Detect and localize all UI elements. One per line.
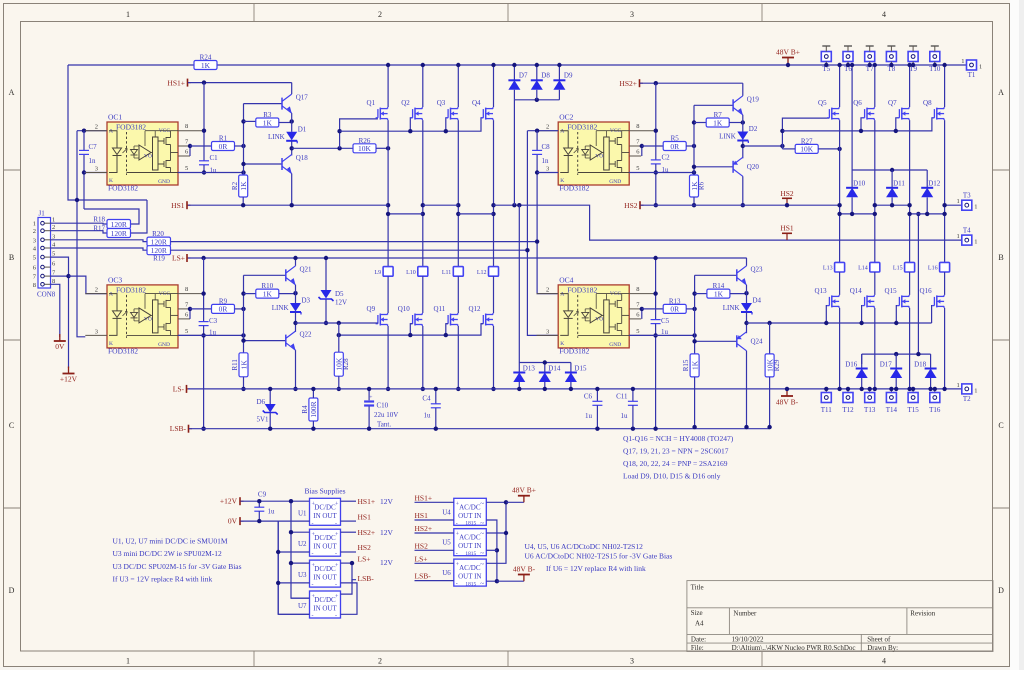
junction T11: [824, 387, 828, 391]
svg-text:T4: T4: [963, 227, 971, 235]
svg-text:OUT IN: OUT IN: [458, 512, 481, 520]
wire D17 cathode: [895, 354, 897, 368]
wire U3 in+: [291, 562, 310, 564]
resistor R27 (10K): [795, 144, 818, 153]
svg-text:L14: L14: [858, 266, 868, 272]
junction rail/Q13: [837, 387, 841, 391]
junction HS1+/VCC drop: [202, 80, 206, 84]
wire R20 line to OC2 pin3 drop: [171, 241, 538, 243]
J1 pin 7: [41, 274, 45, 278]
svg-text:DC/DC: DC/DC: [314, 503, 336, 511]
junction D8 bus: [535, 98, 539, 102]
svg-text:2: 2: [378, 657, 382, 666]
transistor Q24 (PNP): [736, 335, 738, 347]
OC1 pin 3: [85, 172, 107, 174]
svg-text:Q8: Q8: [923, 99, 932, 107]
wire C3 bottom: [203, 326, 205, 429]
diode D16: [856, 368, 868, 370]
wire Q23 collector: [746, 258, 748, 266]
svg-text:HS2: HS2: [415, 541, 429, 550]
wire +12V feed column: [291, 501, 310, 598]
resistor R1 (0R): [212, 142, 235, 151]
wire HS2+ to Q19 collector: [640, 82, 743, 84]
wire R11 bottom: [243, 377, 245, 389]
transistor Q21 (NPN): [285, 269, 287, 281]
junction in- bottom: [495, 579, 499, 583]
wire OC3 pin5 row: [178, 334, 244, 336]
junction LS+/D5: [324, 256, 328, 260]
OC4 pin 7: [629, 308, 641, 310]
svg-text:D3: D3: [302, 297, 311, 305]
diode D2 (LINK): [737, 132, 748, 141]
svg-text:B: B: [9, 253, 14, 262]
wire R7 right: [729, 122, 743, 124]
resistor R10 (1K): [256, 289, 279, 298]
wire 0V feed column: [277, 521, 279, 614]
resistor R29 (10K): [765, 354, 774, 377]
wire R2 bottom: [242, 197, 244, 205]
test point T15: [908, 393, 918, 403]
wire gate riser right: [782, 118, 829, 149]
svg-text:FOD3182: FOD3182: [108, 184, 138, 193]
svg-text:K: K: [560, 341, 564, 347]
svg-text:Revision: Revision: [910, 610, 935, 618]
wire D13 riser: [518, 205, 520, 362]
wire T11 stub: [825, 389, 827, 393]
test point T7: [865, 52, 875, 62]
svg-text:T13: T13: [864, 406, 876, 414]
svg-text:Q18, 20, 22, 24 = PNP = 2SA216: Q18, 20, 22, 24 = PNP = 2SA2169: [623, 459, 728, 468]
transistor Q20 (PNP): [732, 161, 734, 173]
svg-text:Q23: Q23: [751, 265, 764, 273]
junction LS+/OC4 vcc: [653, 256, 657, 260]
wire Q23 emitter to D4: [746, 285, 748, 303]
svg-text:K: K: [560, 178, 564, 184]
junction HS2 tag: [785, 203, 789, 207]
svg-text:C11: C11: [616, 393, 628, 401]
svg-text:2: 2: [546, 124, 549, 131]
wire phase link Q7-Q8: [910, 213, 945, 215]
svg-text:HS1: HS1: [415, 511, 429, 520]
junction pin5 row/R15: [692, 333, 696, 337]
junction LS+/OC3 vcc: [201, 256, 205, 260]
wire Q3 gate tap: [446, 118, 448, 131]
svg-text:3: 3: [630, 10, 634, 19]
svg-text:0R: 0R: [219, 305, 228, 314]
svg-text:LINK: LINK: [719, 133, 736, 141]
svg-text:48V B-: 48V B-: [776, 398, 799, 407]
junction gate tap 861.6: [859, 321, 863, 325]
svg-text:D18: D18: [914, 361, 927, 369]
wire D5 bottom: [325, 299, 327, 323]
wire OC2 pin7 to R5: [642, 145, 663, 147]
svg-text:U1: U1: [298, 509, 307, 517]
wire Q20 emitter drop: [742, 176, 744, 205]
junction Q2 tap: [408, 129, 412, 133]
svg-text:-: -: [312, 583, 314, 589]
wire AC in+ column: [486, 502, 506, 563]
svg-text:3: 3: [95, 328, 98, 335]
DC/DC converter U1: [310, 498, 341, 525]
svg-text:L12: L12: [477, 270, 487, 276]
optocoupler OC2 FOD3182: [558, 122, 629, 185]
wire T15 stub: [912, 389, 914, 393]
wire base ladder x694: [693, 105, 695, 173]
connector J1 CON8: [38, 218, 51, 289]
svg-text:T2: T2: [963, 395, 971, 403]
wire D3 cathode to node: [295, 312, 297, 332]
wire R10 left: [244, 293, 256, 295]
svg-text:FOD3182: FOD3182: [559, 346, 589, 355]
wire node to R26: [292, 147, 353, 149]
junction LS rail/Q9: [386, 387, 390, 391]
svg-text:~: ~: [480, 519, 484, 527]
junction Q18/HS1: [290, 203, 294, 207]
junction rail/Q2: [421, 63, 425, 67]
svg-text:1: 1: [974, 239, 977, 246]
svg-text:U2: U2: [298, 540, 307, 548]
svg-text:T16: T16: [929, 406, 941, 414]
junction T10: [933, 63, 937, 67]
svg-text:1u: 1u: [210, 167, 218, 175]
svg-text:1: 1: [126, 657, 130, 666]
junction phase row Q3: [456, 212, 460, 216]
junction R5 out: [692, 144, 696, 148]
svg-text:U5: U5: [442, 539, 451, 547]
wire gate tap to Q at 874.8: [861, 306, 864, 323]
junction phase/Q6 col: [873, 212, 877, 216]
wire HS1 rail segment 1: [188, 204, 388, 206]
svg-text:LS+: LS+: [358, 554, 371, 563]
wire phase link Q5-Q6: [840, 213, 875, 215]
MOSFET Q1: [377, 109, 379, 118]
wire D18 cathode: [930, 354, 932, 368]
junction C5/pin5: [653, 333, 657, 337]
svg-text:~: ~: [480, 580, 484, 588]
wire Q8 drain: [944, 65, 946, 107]
wire Q10 source: [422, 326, 424, 389]
junction D11 bottom: [890, 203, 894, 207]
svg-text:HS2+: HS2+: [415, 524, 433, 533]
wire U1 in-: [278, 520, 309, 522]
svg-text:DC/DC: DC/DC: [314, 596, 336, 604]
svg-text:0V: 0V: [228, 517, 238, 526]
junction in- mid: [495, 548, 499, 552]
junction R14/Q23 emitter: [744, 291, 748, 295]
svg-text:~: ~: [480, 500, 484, 508]
svg-text:1: 1: [957, 198, 960, 205]
svg-text:3: 3: [95, 166, 98, 173]
MOSFET Q13: [828, 297, 830, 306]
wire OC1 pin5 row: [178, 172, 244, 174]
wire R26 out: [376, 147, 388, 149]
junction gate bus2 right: [780, 129, 784, 133]
junction pin8: [202, 129, 206, 133]
svg-text:Q24: Q24: [751, 337, 764, 345]
svg-text:L10: L10: [406, 270, 416, 276]
diode D4 (LINK): [741, 303, 752, 312]
svg-text:D15: D15: [574, 365, 587, 373]
junction LS rail/Q12: [491, 387, 495, 391]
junction C6/LS-: [595, 387, 599, 391]
wire OC3 pin7 to R9: [190, 308, 212, 310]
junction gate tap 826.3: [824, 321, 828, 325]
wire phase link Q3-Q4: [458, 213, 493, 215]
wire OC3 VCC drop: [203, 258, 205, 322]
svg-text:1K: 1K: [713, 118, 723, 127]
wire 48V B+ rail: [217, 64, 966, 66]
svg-text:5: 5: [636, 328, 639, 335]
svg-text:+12V: +12V: [60, 375, 78, 384]
wire Q18 emitter drop: [291, 174, 293, 206]
wire U7 out- tie: [341, 583, 358, 614]
diode D7: [508, 79, 520, 81]
svg-text:1K: 1K: [263, 289, 273, 298]
junction HS2 rail/Q5 col: [837, 203, 841, 207]
wire OC2 VCC drop: [655, 83, 657, 160]
junction Q24 base: [692, 339, 696, 343]
svg-text:OC2: OC2: [559, 113, 573, 122]
junction D6/LS-: [268, 387, 272, 391]
junction C4/LSB-: [434, 427, 438, 431]
wire C7 bottom lead: [83, 154, 85, 209]
wire OC4 pin5 row: [629, 334, 694, 336]
junction HS1/Q4 col: [491, 203, 495, 207]
svg-text:OC4: OC4: [559, 275, 573, 284]
junction D13/LS-: [517, 387, 521, 391]
wire Q15 source: [909, 308, 911, 389]
DC/DC converter U3: [310, 560, 341, 587]
diode D9: [553, 79, 565, 81]
svg-text:HS2: HS2: [780, 189, 794, 198]
svg-text:T3: T3: [963, 192, 971, 200]
OC4 internals: [560, 294, 568, 336]
wire D6 bottom: [269, 413, 271, 429]
svg-text:IN OUT: IN OUT: [313, 574, 337, 582]
wire Q18 base: [244, 163, 283, 165]
wire J1 pin2 to R17: [51, 231, 107, 233]
OC1 pin 5: [178, 172, 204, 174]
junction D4/gate node: [744, 321, 748, 325]
junction D6/LSB-: [268, 427, 272, 431]
svg-text:HS1: HS1: [780, 224, 794, 233]
wire D2 cathode to node: [742, 141, 744, 159]
junction R10 left: [241, 291, 245, 295]
svg-text:L11: L11: [442, 270, 451, 276]
inductor/link L14: [870, 262, 880, 272]
MOSFET Q9: [377, 315, 379, 324]
wire gate node row: [296, 322, 339, 324]
junction D16/rail: [860, 387, 864, 391]
svg-text:U6: U6: [442, 569, 451, 577]
MOSFET Q6: [864, 109, 866, 118]
junction Q11 tap: [444, 333, 448, 337]
svg-text:FOD3182: FOD3182: [116, 285, 146, 294]
transistor Q18 (NPN): [281, 158, 283, 170]
svg-text:U1, U2, U7 mini DC/DC ie SMU01: U1, U2, U7 mini DC/DC ie SMU01M: [113, 537, 228, 546]
resistor R6 (1K): [690, 175, 699, 197]
wire D12 anode: [926, 197, 928, 214]
wire U4 out- row: [415, 519, 454, 521]
wire Q22 base: [244, 340, 286, 342]
svg-text:1K: 1K: [714, 289, 724, 298]
svg-text:C10: C10: [377, 402, 389, 410]
svg-text:Q19: Q19: [747, 95, 760, 103]
svg-text:R15: R15: [682, 359, 690, 371]
junction R7/emitter: [741, 120, 745, 124]
junction T5: [824, 63, 828, 67]
wire OC2 pin6 tie: [641, 146, 643, 156]
wire Q17 base: [244, 103, 283, 105]
junction R28/LS-: [337, 387, 341, 391]
wire T12 stub: [847, 389, 849, 393]
wire 0V row: [241, 521, 310, 614]
wire OC4 VCC drop: [655, 258, 657, 320]
wire Q7 drain: [909, 65, 911, 107]
svg-text:T14: T14: [886, 406, 898, 414]
junction Q3 tap: [444, 129, 448, 133]
OC2 pin 8: [629, 130, 655, 132]
transistor Q19 (NPN): [732, 99, 734, 111]
wire OC2 pin5 row: [629, 172, 694, 174]
svg-text:8: 8: [185, 123, 188, 130]
wire T6 stub: [847, 62, 849, 66]
junction phase row Q2: [421, 212, 425, 216]
svg-text:Load D9, D10, D15 & D16 only: Load D9, D10, D15 & D16 only: [623, 472, 721, 481]
power port 48V B-: [786, 389, 788, 396]
svg-text:U4: U4: [442, 508, 451, 516]
svg-text:Number: Number: [733, 610, 757, 618]
wire D16-D18 top bus: [862, 353, 931, 355]
wire Q23 base: [695, 274, 737, 276]
optocoupler OC1 FOD3182: [107, 122, 178, 185]
svg-text:1: 1: [974, 387, 977, 394]
svg-text:Q21: Q21: [300, 265, 313, 273]
junction rail/Q6: [873, 63, 877, 67]
svg-text:1u: 1u: [268, 508, 276, 516]
J1 pin 5: [41, 255, 45, 259]
svg-text:Drawn By:: Drawn By:: [867, 644, 898, 652]
wire OC1 pin2 net: [77, 130, 107, 132]
wire Q14 source: [874, 308, 876, 389]
svg-text:If U6 = 12V replace R4 with li: If U6 = 12V replace R4 with link: [546, 564, 646, 573]
inductor/link L15: [905, 262, 915, 272]
svg-text:A: A: [109, 291, 113, 297]
svg-text:HS2+: HS2+: [619, 79, 637, 88]
svg-text:2: 2: [33, 228, 36, 235]
svg-text:C3: C3: [209, 317, 218, 325]
junction HS2 rail/Q6 col: [873, 203, 877, 207]
OC2 pin 2: [537, 130, 559, 132]
svg-text:-: -: [335, 521, 337, 527]
test point T8: [886, 52, 896, 62]
junction R3 left: [241, 119, 245, 123]
junction LS rail/Q10: [421, 387, 425, 391]
wire R13 out: [686, 308, 694, 310]
junction D16 bus: [916, 352, 920, 356]
junction U3 in+: [289, 561, 293, 565]
wire pin6 tie: [189, 146, 191, 156]
wire Q24 base: [695, 340, 737, 342]
OC1 pin 8: [178, 130, 204, 132]
wire HS2 rail segment 3: [945, 204, 962, 206]
svg-text:1n: 1n: [89, 157, 97, 165]
inductor/link L9: [383, 267, 393, 277]
junction C8 top: [535, 129, 539, 133]
wire L9 to Q9: [387, 276, 389, 313]
wire U5 out- row: [415, 549, 454, 551]
junction U2 in-: [276, 550, 280, 554]
junction pin5/R6: [692, 170, 696, 174]
wire +12V row: [241, 500, 310, 502]
diode D11: [886, 187, 898, 189]
OC4 pin 3: [537, 334, 559, 336]
wire LS- / 48V B- rail: [188, 388, 962, 390]
junction T8: [889, 63, 893, 67]
svg-text:K: K: [109, 178, 113, 184]
wire Q4 source to Q12 drain: [493, 120, 495, 267]
wire R3 right: [279, 122, 292, 124]
wire U7 out+ tie: [341, 563, 353, 594]
svg-text:+12V: +12V: [220, 497, 238, 506]
capacitor C7 (1n): [79, 149, 89, 151]
test point T10: [930, 52, 940, 62]
J1 pin 8: [41, 283, 45, 287]
svg-text:FOD3182: FOD3182: [108, 346, 138, 355]
svg-text:5V1: 5V1: [257, 416, 270, 424]
wire OC2 pin3 jog: [537, 172, 558, 174]
wire D15 anode: [570, 382, 572, 389]
junction Q22/LS-: [293, 387, 297, 391]
svg-text:A4: A4: [695, 620, 704, 628]
svg-text:120R: 120R: [111, 220, 127, 229]
junction D14/LS-: [543, 387, 547, 391]
svg-text:R4: R4: [301, 405, 309, 414]
wire Q11 source: [457, 326, 459, 389]
resistor R26 (10K): [353, 144, 376, 153]
svg-text:+: +: [456, 532, 460, 538]
wire gate node to Q9: [339, 322, 378, 324]
svg-text:+: +: [369, 395, 372, 401]
wire R14 left: [695, 293, 707, 295]
resistor R7 (1K): [706, 118, 729, 127]
svg-text:U6 AC/DCtoDC NH02-T2S15 for -3: U6 AC/DCtoDC NH02-T2S15 for -3V Gate Bia…: [525, 552, 673, 561]
svg-text:HS2+: HS2+: [358, 528, 376, 537]
wire LSB- rail: [189, 428, 770, 430]
wire Q2 source to Q10 drain: [422, 120, 424, 267]
junction U3 in-: [276, 581, 280, 585]
junction rail/Q3: [456, 63, 460, 67]
junction OC2 pin8: [654, 129, 658, 133]
junction D11 top: [890, 168, 894, 172]
svg-text:Q16: Q16: [920, 287, 933, 295]
diode D15: [565, 372, 577, 374]
wire C1 bottom: [203, 165, 205, 173]
capacitor C5 (1u): [651, 319, 661, 321]
svg-text:D6: D6: [257, 398, 266, 406]
wire C8 bottom lead: [536, 154, 538, 174]
OC2 pin 5: [629, 172, 655, 174]
svg-text:HS1: HS1: [171, 201, 185, 210]
svg-text:-: -: [456, 521, 458, 527]
svg-text:1K: 1K: [201, 61, 211, 70]
MOSFET Q11: [447, 315, 449, 324]
OC3 internals: [109, 294, 117, 336]
wire Q1 drain: [387, 65, 389, 107]
svg-text:1815: 1815: [465, 581, 476, 587]
svg-text:HS1+: HS1+: [415, 493, 433, 502]
junction R20 line: [535, 239, 539, 243]
